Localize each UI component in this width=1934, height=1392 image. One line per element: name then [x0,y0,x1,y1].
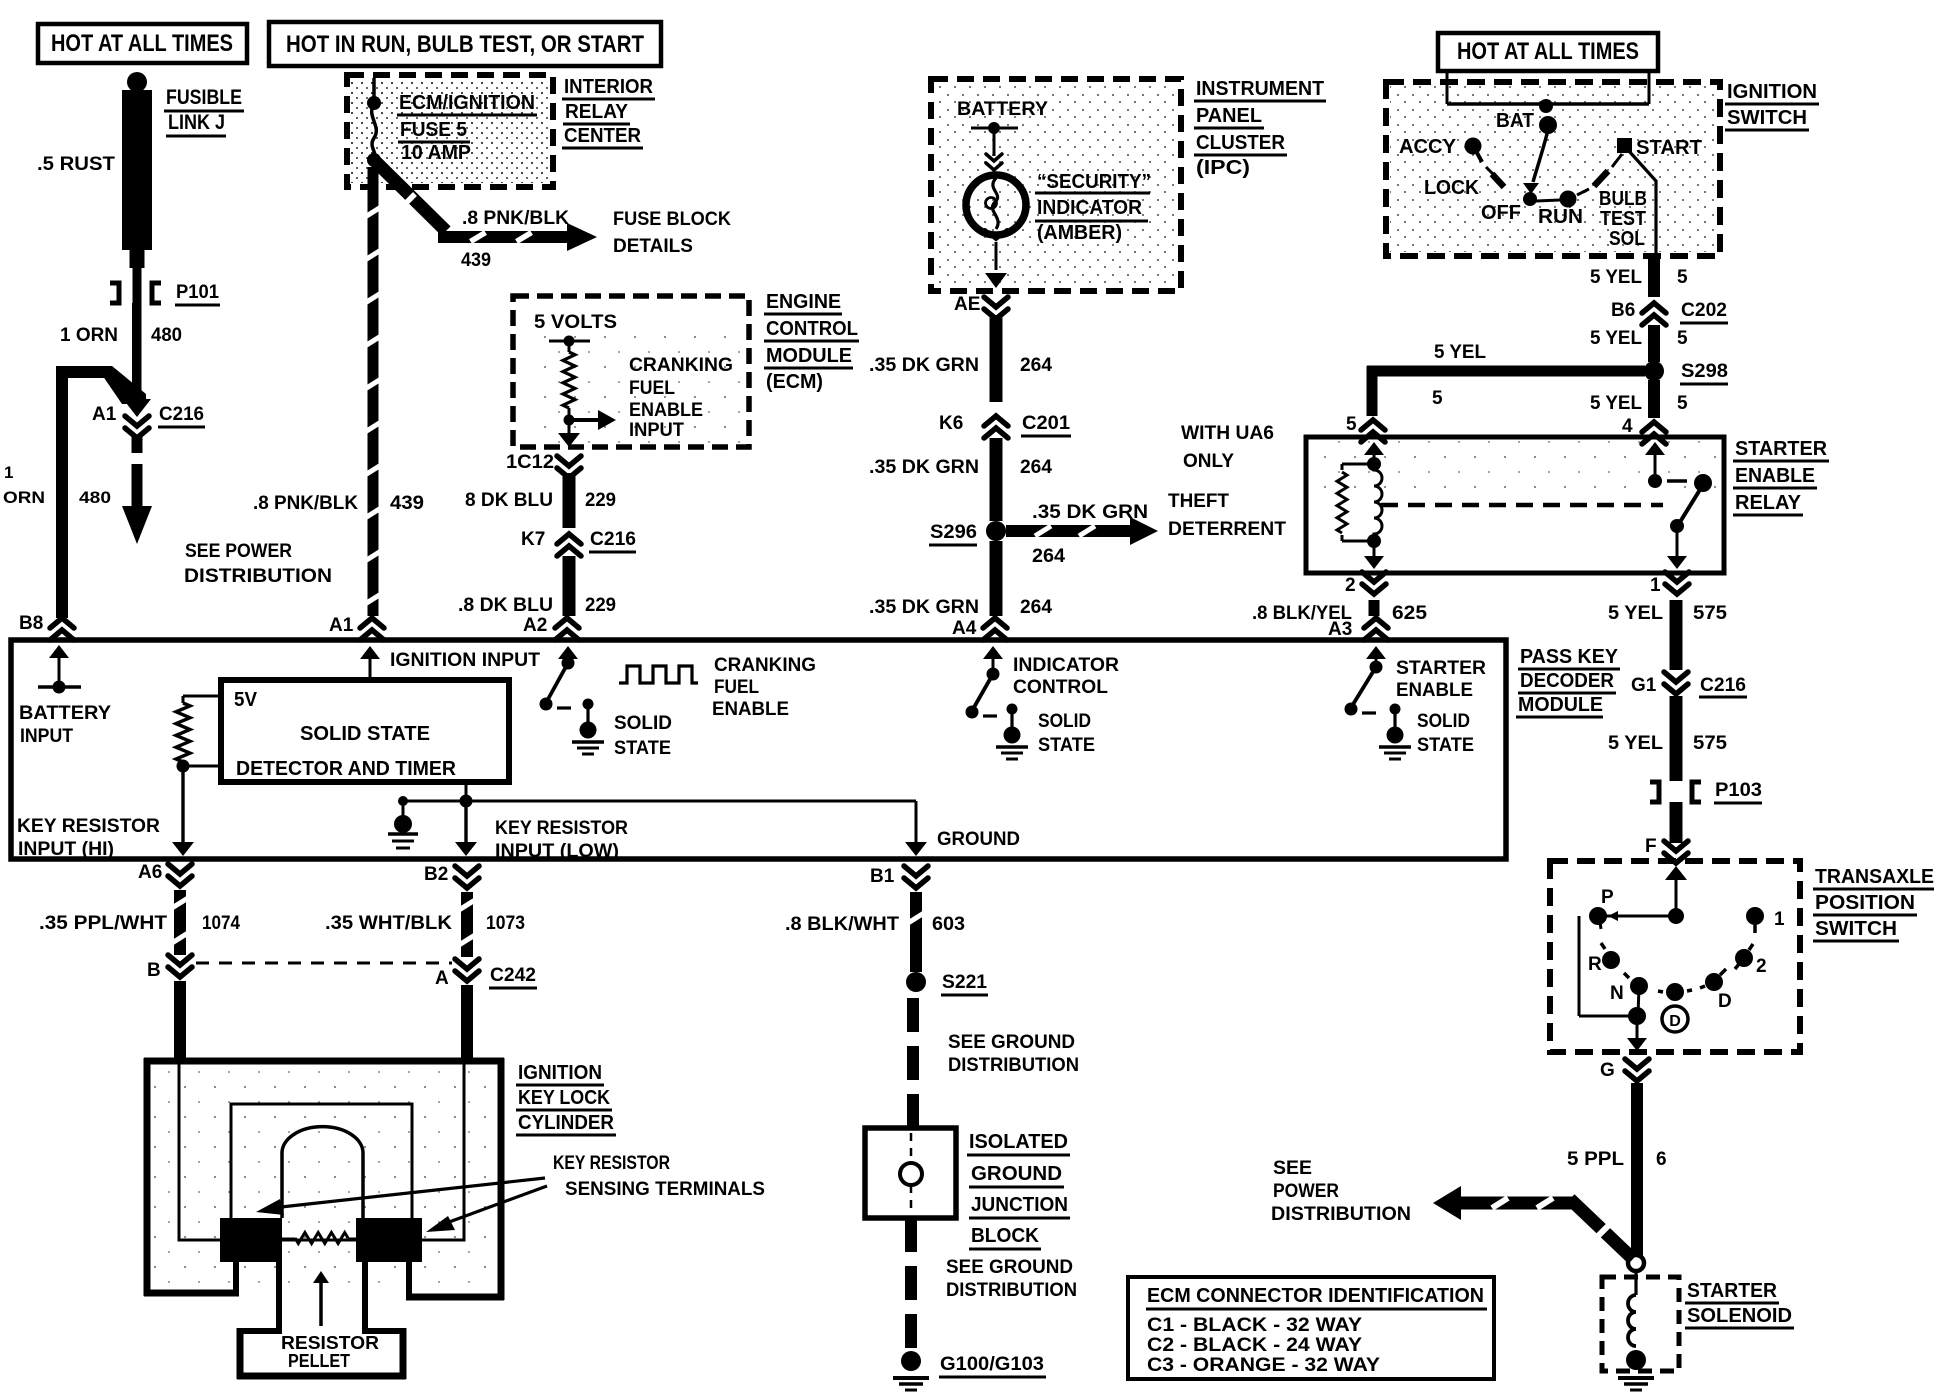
indicator control switch (A4) [966,646,1004,719]
svg-text:P: P [1601,887,1614,908]
svg-text:C216: C216 [1700,675,1746,696]
svg-text:PASS KEY: PASS KEY [1520,646,1619,668]
svg-text:A2: A2 [523,615,547,636]
svg-text:480: 480 [151,325,182,346]
svg-text:POWER: POWER [1273,1181,1339,1202]
svg-text:SOL: SOL [1609,228,1645,250]
svg-text:LINK J: LINK J [168,111,225,134]
cranking fuel enable switch (A2) [540,646,579,711]
svg-text:B2: B2 [424,864,448,885]
svg-text:INPUT (HI): INPUT (HI) [18,839,114,860]
svg-text:B1: B1 [870,866,895,887]
dashed ground wire to junction block [907,998,919,1128]
label KEY RESISTOR SENSING TERMINALS [553,1153,765,1200]
dashed ground wire below junction block [905,1218,917,1348]
svg-text:STARTER: STARTER [1396,658,1486,679]
svg-text:.8 DK BLU: .8 DK BLU [458,595,553,616]
relay pin 4 connector [1622,416,1666,444]
svg-text:264: 264 [1032,546,1065,567]
svg-text:ENABLE: ENABLE [712,699,789,720]
wire branch to B8 (1 ORN 480) [3,366,151,618]
switch arm BAT to OFF [1523,130,1548,206]
keyway arch [282,1127,363,1218]
svg-text:(ECM): (ECM) [766,371,823,393]
relay link dashed line [1381,503,1663,508]
dashed connector line C242 [196,962,452,965]
connector C242 pin A [435,959,537,989]
svg-text:S298: S298 [1681,361,1728,382]
svg-text:6: 6 [1656,1149,1667,1170]
connector P103 [1650,780,1762,803]
label KEY RESISTOR INPUT (HI) [17,816,160,860]
wire 5 YEL 5 (B6 to S298) [1590,325,1688,362]
svg-text:RUN: RUN [1538,206,1583,228]
fusible link J symbol [122,72,152,404]
key resistor sensing terminal (left) [220,1218,282,1262]
svg-text:GROUND: GROUND [971,1163,1062,1185]
svg-text:K7: K7 [521,529,545,550]
svg-text:HOT AT ALL TIMES: HOT AT ALL TIMES [1457,38,1639,65]
wire .35 PPL/WHT 1074 [39,890,240,955]
wire to transaxle pin F [1645,802,1688,863]
wire .8 PNK/BLK 439 (fuse to pin A1) [253,167,424,616]
svg-text:RESISTOR: RESISTOR [281,1333,379,1353]
wire .8 BLK/YEL 625 (pin2 to A3) [1252,600,1427,624]
ECM connector identification box [1128,1277,1494,1379]
svg-text:229: 229 [585,490,616,511]
svg-text:FUEL: FUEL [629,378,675,399]
svg-text:CONTROL: CONTROL [1013,677,1108,698]
svg-text:1: 1 [1774,909,1785,930]
svg-text:BATTERY: BATTERY [957,99,1048,120]
svg-text:AE: AE [954,294,980,315]
arrow down to 1C12 [558,420,580,447]
svg-text:DETECTOR AND TIMER: DETECTOR AND TIMER [236,758,457,780]
splice S296 [929,521,1006,545]
svg-text:SOLENOID: SOLENOID [1687,1305,1792,1327]
svg-text:D: D [1669,1013,1681,1030]
svg-text:ECM/IGNITION: ECM/IGNITION [399,92,535,114]
svg-text:(AMBER): (AMBER) [1037,222,1122,244]
solid state detector box [221,680,509,782]
svg-text:FUSE 5: FUSE 5 [400,119,467,141]
connector AE [954,294,1008,319]
label ENGINE CONTROL MODULE (ECM) [764,291,859,393]
svg-text:STATE: STATE [614,738,671,759]
wire 5 YEL 5 (S298 to relay pin 4) [1590,380,1688,418]
svg-text:B6: B6 [1611,300,1635,321]
relay pin 1 connector [1650,572,1689,596]
label SEE GROUND DISTRIBUTION (lower) [946,1257,1077,1301]
ignition switch dashed box (stippled) [1386,82,1720,256]
contact 1 [1746,907,1785,933]
key resistor sensing terminal (right) [356,1218,422,1262]
svg-text:STATE: STATE [1417,735,1474,756]
solid state ground (A3) [1379,704,1411,760]
pin B2 connector [424,864,479,888]
selector frame to N [1579,916,1646,1025]
svg-text:KEY RESISTOR: KEY RESISTOR [17,816,160,837]
wire 5 YEL 575 (G1 to P103) [1608,696,1727,781]
svg-text:DISTRIBUTION: DISTRIBUTION [948,1055,1079,1076]
svg-text:IGNITION INPUT: IGNITION INPUT [390,650,540,671]
svg-text:DISTRIBUTION: DISTRIBUTION [184,566,332,587]
svg-text:.35 WHT/BLK: .35 WHT/BLK [325,913,452,934]
module ground network [388,782,927,856]
label BATTERY [957,99,1048,120]
svg-text:PELLET: PELLET [288,1351,350,1371]
connector 1C12 [506,452,581,478]
svg-text:CENTER: CENTER [564,125,642,147]
interior relay center dashed box (stippled) [347,75,553,187]
engine control module dashed box [513,296,749,447]
START contact [1612,137,1702,167]
label INDICATOR CONTROL [1013,655,1119,698]
cylinder inner frame [231,1104,412,1240]
svg-text:.35 DK GRN: .35 DK GRN [869,597,979,618]
svg-text:CYLINDER: CYLINDER [518,1112,615,1134]
svg-text:(IPC): (IPC) [1196,157,1250,179]
svg-text:439: 439 [461,250,491,271]
svg-text:OFF: OFF [1481,202,1521,224]
svg-text:5 PPL: 5 PPL [1567,1149,1624,1170]
battery node in IPC [971,122,1018,170]
svg-text:RELAY: RELAY [565,101,629,123]
svg-text:KEY RESISTOR: KEY RESISTOR [495,818,628,839]
relay pin 5 connector [1346,414,1385,442]
svg-text:C202: C202 [1681,300,1727,321]
connector C242 pin B [147,955,192,981]
svg-text:.8 BLK/WHT: .8 BLK/WHT [785,914,899,935]
arrow to left terminal [256,1178,545,1215]
LOCK contact [1424,167,1504,199]
svg-text:IGNITION: IGNITION [518,1062,602,1084]
ignition input wire (A1) [360,646,540,680]
contact R [1588,943,1620,975]
label TRANSAXLE POSITION SWITCH [1813,866,1934,941]
svg-text:5: 5 [1677,328,1688,349]
branch arrow to SEE POWER DISTRIBUTION [1433,1186,1633,1259]
svg-text:HOT AT ALL TIMES: HOT AT ALL TIMES [51,30,233,57]
label IGNITION SWITCH [1725,81,1819,130]
svg-text:ORN: ORN [3,488,45,507]
power label box HOT AT ALL TIMES (left) [38,24,247,63]
svg-text:DISTRIBUTION: DISTRIBUTION [946,1280,1077,1301]
svg-text:BAT: BAT [1496,110,1534,132]
connector C201 pin K6 [939,413,1071,438]
label PASS KEY DECODER MODULE [1516,646,1620,717]
label SOLID STATE (A2) [614,713,672,759]
svg-text:5V: 5V [234,689,258,711]
svg-text:SEE GROUND: SEE GROUND [946,1257,1073,1278]
connector G [1600,1059,1649,1081]
svg-text:575: 575 [1693,603,1727,624]
svg-text:WITH UA6: WITH UA6 [1181,423,1274,444]
svg-text:1C12: 1C12 [506,452,554,473]
svg-text:C201: C201 [1022,413,1070,434]
svg-text:CRANKING: CRANKING [629,355,733,376]
svg-text:5 YEL: 5 YEL [1608,603,1663,624]
label SEE POWER DISTRIBUTION (left) [184,541,332,587]
label STARTER ENABLE (module) [1396,658,1486,701]
pin A3 connector at module [1328,618,1388,640]
ground G100/G103 [893,1351,1046,1390]
label FUSIBLE LINK J [164,86,244,136]
label INTERIOR RELAY CENTER [562,76,655,148]
svg-text:5: 5 [1677,393,1688,414]
svg-text:SOLID: SOLID [614,713,672,734]
cylinder inner housing [179,1063,464,1240]
label WITH UA6 ONLY [1181,423,1274,472]
svg-text:INPUT (LOW): INPUT (LOW) [495,841,619,862]
svg-text:IGNITION: IGNITION [1727,81,1817,103]
svg-text:P103: P103 [1715,780,1762,801]
connector P101 [110,282,220,305]
wire from lamp to AE [985,242,1007,288]
svg-text:SENSING TERMINALS: SENSING TERMINALS [565,1179,765,1200]
wire 5 YEL 5 branch to relay pin 5 [1367,342,1646,416]
svg-text:5 YEL: 5 YEL [1434,342,1486,363]
svg-text:D: D [1718,991,1732,1012]
svg-text:575: 575 [1693,733,1727,754]
pin B8 connector at module [19,613,74,640]
svg-text:5 YEL: 5 YEL [1590,267,1642,288]
svg-text:ONLY: ONLY [1183,451,1234,472]
svg-text:229: 229 [585,595,616,616]
wire .35 DK GRN 264 (S296 to A4) [869,541,1052,618]
svg-text:8 DK BLU: 8 DK BLU [465,490,553,511]
svg-text:KEY RESISTOR: KEY RESISTOR [553,1153,670,1174]
svg-text:FUEL: FUEL [714,677,759,698]
label KEY RESISTOR INPUT (LOW) [495,818,628,862]
pin A4 connector at module [952,618,1007,640]
power label box HOT AT ALL TIMES (right) [1438,33,1658,71]
transaxle output arrow to G [1627,1016,1647,1051]
svg-text:SOLID STATE: SOLID STATE [300,723,430,745]
wire .8 BLK/WHT 603 [785,892,965,972]
starter enable relay box [1306,437,1724,573]
pass key decoder module box [11,640,1506,859]
svg-text:C2 - BLACK - 24 WAY: C2 - BLACK - 24 WAY [1147,1335,1362,1356]
wire 1 ORN 480 (vertical from P101) [60,303,182,404]
transaxle position switch dashed box [1550,861,1800,1052]
svg-text:HOT IN RUN, BULB TEST, OR STAR: HOT IN RUN, BULB TEST, OR START [286,31,644,58]
svg-text:G: G [1600,1060,1615,1081]
security indicator lamp [966,175,1026,239]
wire .35 WHT/BLK 1073 [325,892,525,957]
label CRANKING FUEL ENABLE INPUT [629,355,733,441]
label STARTER SOLENOID [1685,1280,1794,1328]
svg-text:5 YEL: 5 YEL [1590,328,1642,349]
ACCY contact [1399,136,1482,162]
label SEE GROUND DISTRIBUTION (upper) [948,1032,1079,1076]
wire 5 YEL 5 (switch to B6) [1590,254,1688,297]
wire .8 DK BLU 229 (lower) [458,556,616,616]
svg-text:“SECURITY”: “SECURITY” [1037,171,1151,193]
connector C202 pin B6 [1611,300,1728,325]
label STARTER ENABLE RELAY [1733,438,1829,515]
svg-text:4: 4 [1622,416,1633,437]
svg-text:1: 1 [1650,575,1661,596]
svg-text:.5 RUST: .5 RUST [37,154,115,175]
node at starter solenoid [1628,1255,1644,1271]
svg-text:INDICATOR: INDICATOR [1037,197,1143,219]
svg-text:ACCY: ACCY [1399,136,1457,158]
svg-text:C1 - BLACK - 32 WAY: C1 - BLACK - 32 WAY [1147,1315,1362,1336]
svg-text:A: A [435,968,449,989]
key resistor pull-up [172,696,221,856]
svg-text:ISOLATED: ISOLATED [969,1131,1068,1153]
splice S221 [906,972,988,995]
relay pin 2 connector [1345,572,1386,596]
svg-text:START: START [1636,137,1702,159]
svg-text:BLOCK: BLOCK [971,1225,1040,1247]
wire stub to SEE POWER DISTRIBUTION [122,436,152,544]
svg-text:5 YEL: 5 YEL [1590,393,1642,414]
starter enable switch (A3) [1345,646,1387,716]
svg-text:INSTRUMENT: INSTRUMENT [1196,78,1324,100]
svg-text:P101: P101 [176,282,219,303]
svg-text:S221: S221 [942,972,987,993]
wire 8 DK BLU 229 (upper) [465,473,616,528]
svg-text:5: 5 [1432,388,1443,409]
wire 5 PPL 6 (G to solenoid) [1567,1083,1667,1256]
svg-text:A1: A1 [92,404,117,425]
svg-text:2: 2 [1756,956,1767,977]
svg-text:A3: A3 [1328,619,1352,640]
contact 2 [1700,944,1767,991]
OFF RUN contacts [1481,191,1583,229]
svg-text:MODULE: MODULE [766,345,852,367]
svg-text:5 VOLTS: 5 VOLTS [534,312,617,333]
branch arrow .35 DK GRN 264 to theft deterrent [1006,502,1158,567]
wire .35 DK GRN 264 (AE to K6) [869,315,1052,402]
label SOLID STATE (A3) [1417,711,1474,756]
BULB TEST SOL contact [1577,171,1647,250]
svg-text:SOLID: SOLID [1038,711,1091,732]
svg-text:FUSE BLOCK: FUSE BLOCK [613,209,731,230]
svg-text:264: 264 [1020,597,1052,618]
pin A2 connector at module [523,615,579,640]
svg-text:5: 5 [1677,267,1688,288]
svg-text:TRANSAXLE: TRANSAXLE [1815,866,1934,888]
cranking fuel enable output arrow [564,410,617,430]
svg-text:.35 PPL/WHT: .35 PPL/WHT [39,913,167,934]
label BATTERY INPUT [19,703,111,747]
5 volts node and resistor [549,336,590,420]
label INSTRUMENT PANEL CLUSTER (IPC) [1194,78,1326,179]
transaxle common feed [1665,866,1687,924]
svg-text:KEY LOCK: KEY LOCK [518,1087,610,1109]
instrument panel cluster dashed box (stippled) [931,79,1181,291]
svg-text:STATE: STATE [1038,735,1095,756]
label SECURITY INDICATOR (AMBER) [1035,171,1151,244]
label IGNITION KEY LOCK CYLINDER [516,1062,616,1135]
svg-text:BULB: BULB [1599,188,1647,210]
pellet neck and resistor pellet box [237,1262,407,1380]
svg-text:G100/G103: G100/G103 [940,1354,1044,1375]
svg-text:THEFT: THEFT [1168,491,1229,512]
svg-text:B: B [147,960,161,981]
svg-text:C216: C216 [590,529,636,550]
svg-text:ENABLE: ENABLE [1396,680,1473,701]
svg-text:2: 2 [1345,575,1356,596]
label CRANKING FUEL ENABLE (module) [712,655,816,720]
svg-text:POSITION: POSITION [1815,892,1915,914]
pin A6 connector [138,862,192,886]
splice S298 [1644,361,1728,384]
BAT contact [1496,99,1557,134]
svg-text:SEE: SEE [1273,1158,1312,1179]
svg-text:R: R [1588,954,1602,975]
wire .35 DK GRN 264 (K6 to S296) [869,438,1052,521]
svg-text:A4: A4 [952,618,977,639]
svg-text:RELAY: RELAY [1735,492,1802,514]
arrow to resistor pellet [313,1271,329,1326]
svg-text:C216: C216 [159,404,204,425]
svg-text:.35 DK GRN: .35 DK GRN [869,355,979,376]
svg-text:G1: G1 [1631,675,1657,696]
label SEE POWER DISTRIBUTION (right) [1271,1158,1411,1225]
starter solenoid coil [1626,1271,1646,1370]
svg-text:STARTER: STARTER [1687,1280,1778,1302]
starter solenoid dashed box [1602,1277,1679,1371]
svg-text:625: 625 [1392,603,1427,624]
svg-text:DISTRIBUTION: DISTRIBUTION [1271,1204,1411,1225]
contact P [1589,887,1676,929]
relay switch contacts [1645,442,1712,569]
svg-text:5 YEL: 5 YEL [1608,733,1663,754]
svg-text:S296: S296 [930,522,977,543]
svg-text:FUSIBLE: FUSIBLE [166,86,242,109]
svg-text:A1: A1 [329,615,354,636]
svg-text:10 AMP: 10 AMP [401,142,471,164]
connector C216 pin K7 [521,529,636,556]
circled D indicator [1662,1006,1688,1032]
wire .8 PNK/BLK 439 branch arrow to fuse block details [376,162,597,271]
wire 5 YEL 575 (pin1 to G1) [1608,600,1727,670]
svg-text:B8: B8 [19,613,43,634]
resistor pellet element [282,1233,360,1244]
svg-text:.35 DK GRN: .35 DK GRN [869,457,979,478]
svg-text:ENABLE: ENABLE [629,400,703,421]
svg-text:C3 - ORANGE - 32 WAY: C3 - ORANGE - 32 WAY [1147,1355,1380,1376]
starter solenoid ground [1618,1378,1654,1390]
label SOLID STATE (A4) [1038,711,1095,756]
ignition switch output wire [1628,150,1656,254]
svg-text:SWITCH: SWITCH [1815,918,1897,940]
svg-text:CRANKING: CRANKING [714,655,816,676]
solid state ground (A2) [572,699,604,755]
svg-text:CLUSTER: CLUSTER [1196,132,1286,154]
label ECM/IGNITION FUSE 5 10 AMP [397,92,537,164]
label ISOLATED GROUND JUNCTION BLOCK [967,1131,1070,1249]
svg-text:1: 1 [4,463,13,482]
svg-text:ENGINE: ENGINE [766,291,841,313]
wire label .5 RUST [37,154,115,175]
svg-text:1074: 1074 [202,913,240,934]
svg-text:264: 264 [1020,355,1052,376]
svg-text:LOCK: LOCK [1424,177,1480,199]
battery input terminal (B8) [38,645,81,694]
svg-text:DETAILS: DETAILS [613,236,693,257]
svg-text:480: 480 [79,488,111,507]
contact D (bottom) [1658,983,1732,1012]
arrow to right terminal [426,1186,547,1232]
label GROUND [937,829,1020,850]
svg-text:439: 439 [390,493,424,514]
svg-text:K6: K6 [939,413,963,434]
